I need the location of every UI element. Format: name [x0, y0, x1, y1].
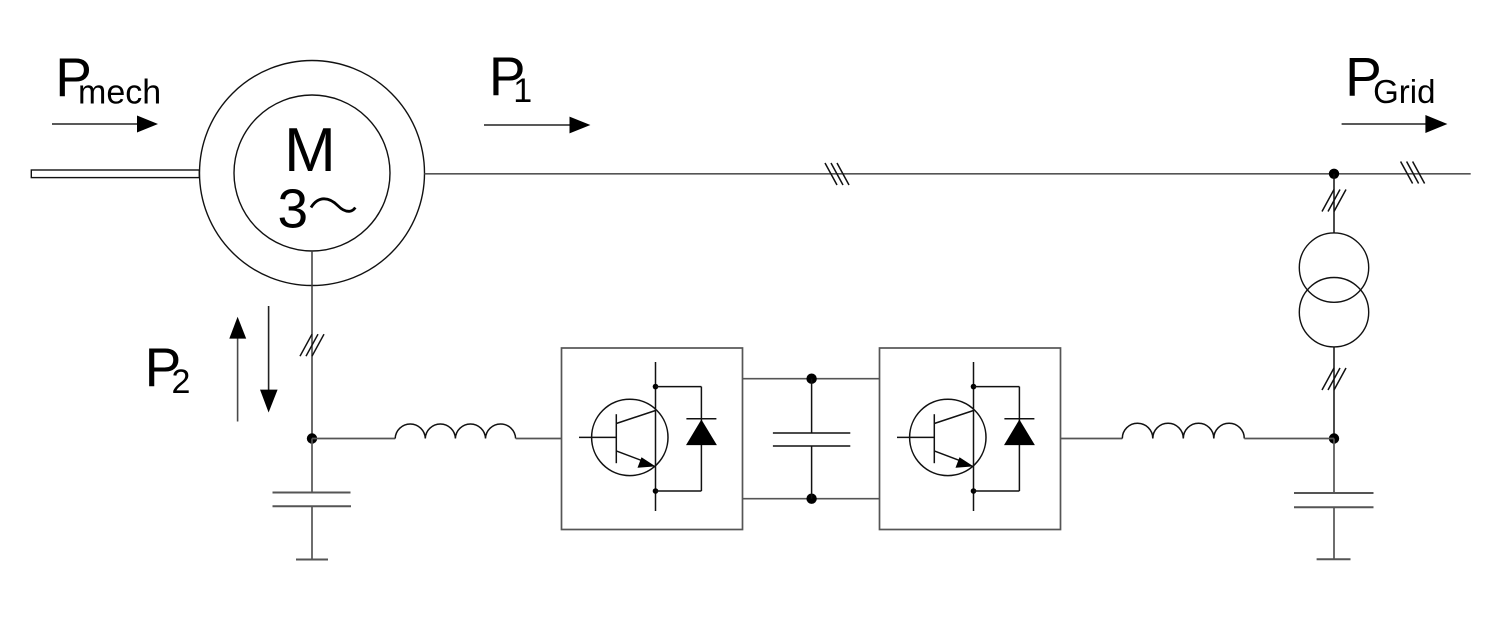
capacitor C2 wire lower — [1333, 507, 1335, 559]
machine M outer circle — [200, 61, 425, 286]
converter U1 box — [562, 348, 743, 530]
capacitor Cdc plates — [773, 433, 850, 446]
node Q1 emitter — [653, 488, 659, 494]
node Q2 collector — [971, 384, 977, 390]
wire DC plus — [743, 378, 880, 380]
inductor L2 — [1122, 423, 1244, 438]
node grid junction — [1329, 169, 1339, 179]
svg-text:2: 2 — [172, 363, 191, 401]
three-phase marks grid right — [1401, 162, 1425, 184]
svg-text:3: 3 — [278, 177, 309, 239]
transistor Q2 — [897, 362, 986, 511]
transformer T1 secondary circle — [1299, 278, 1368, 347]
transistor Q1 — [579, 362, 668, 511]
label P1 — [489, 45, 532, 110]
three-phase marks transformer primary — [1322, 190, 1346, 212]
wire stator bus — [425, 173, 1471, 175]
capacitor Cdc wire lower — [811, 446, 813, 499]
three-phase marks stator bus — [825, 163, 849, 185]
arrow P_mech — [52, 116, 158, 133]
node Q1 collector — [653, 384, 659, 390]
node rotor junction — [307, 433, 317, 443]
svg-text:Grid: Grid — [1373, 73, 1435, 110]
converter U2 box — [880, 348, 1061, 530]
wire transformer secondary drop — [1333, 347, 1335, 439]
node DC plus — [806, 374, 816, 384]
arrow P2 down — [260, 306, 278, 413]
capacitor C1 plates — [273, 493, 352, 507]
capacitor Cdc wire upper — [811, 379, 813, 433]
wire L2 to grid node — [1244, 438, 1334, 440]
arrow P1 — [484, 117, 590, 134]
machine label tilde — [311, 199, 355, 211]
ground G2 — [1317, 558, 1351, 560]
three-phase marks transformer secondary — [1322, 368, 1346, 390]
capacitor C1 wire upper — [311, 439, 313, 493]
diode D2 — [974, 387, 1035, 491]
transformer T1 primary circle — [1299, 233, 1368, 302]
label P_Grid — [1345, 46, 1435, 111]
node rotor-grid junction — [1329, 433, 1339, 443]
svg-text:M: M — [284, 116, 336, 185]
three-phase marks rotor — [300, 334, 324, 356]
svg-text:1: 1 — [513, 72, 532, 110]
capacitor C2 wire upper — [1333, 439, 1335, 494]
wire node to L1 — [312, 438, 395, 440]
wire rotor vertical — [311, 251, 313, 439]
arrow P2 up — [229, 317, 246, 422]
shaft — [31, 170, 199, 178]
wire U2 to L2 — [1061, 438, 1123, 440]
label P2 — [145, 336, 191, 401]
capacitor C2 plates — [1294, 493, 1374, 507]
inductor L1 — [395, 424, 515, 439]
arrow P_Grid — [1342, 115, 1448, 133]
node DC minus — [806, 494, 816, 504]
label P_mech — [55, 46, 161, 112]
svg-text:mech: mech — [78, 74, 161, 112]
ground G1 — [296, 559, 328, 561]
capacitor C1 wire lower — [311, 506, 313, 559]
wire DC minus — [743, 498, 880, 500]
wire grid drop to transformer — [1333, 174, 1335, 234]
diode D1 — [656, 387, 717, 491]
wire L1 to converter U1 — [516, 438, 562, 440]
machine M inner circle — [234, 95, 390, 251]
node Q2 emitter — [971, 488, 977, 494]
